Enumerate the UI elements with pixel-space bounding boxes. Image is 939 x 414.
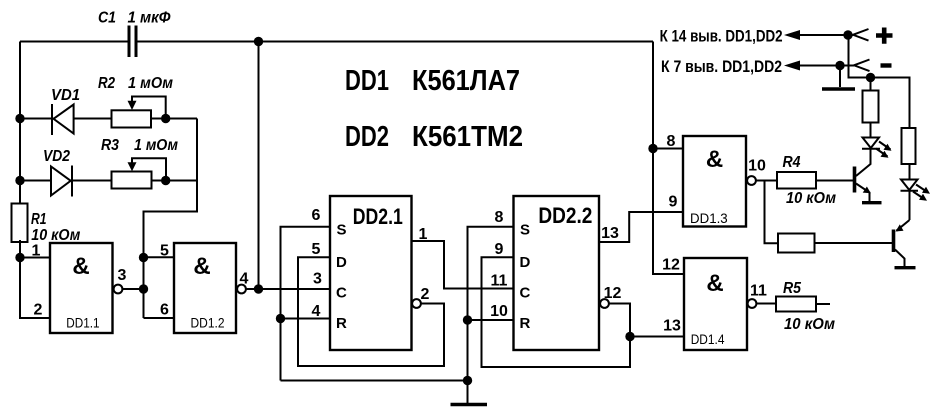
svg-text:DD1.2: DD1.2 [191,315,225,331]
svg-text:5: 5 [160,243,169,260]
svg-text:DD2: DD2 [345,121,389,153]
svg-text:10 кОм: 10 кОм [786,190,836,207]
svg-text:1 мОм: 1 мОм [134,137,178,154]
svg-text:К 7 выв. DD1,DD2: К 7 выв. DD1,DD2 [661,57,782,76]
svg-text:D: D [520,254,531,271]
svg-text:1 мкФ: 1 мкФ [128,10,171,27]
svg-text:&: & [706,270,723,297]
svg-text:5: 5 [312,241,321,258]
svg-text:3: 3 [118,267,127,284]
svg-text:R3: R3 [101,137,119,154]
svg-text:VD2: VD2 [43,148,70,165]
svg-text:&: & [72,253,89,280]
svg-text:10: 10 [490,303,508,320]
svg-text:9: 9 [495,241,504,258]
svg-text:R5: R5 [783,280,802,297]
svg-text:12: 12 [662,257,680,274]
svg-text:&: & [706,146,723,173]
svg-text:DD2.1: DD2.1 [353,204,403,229]
svg-text:R: R [336,315,347,332]
svg-text:10 кОм: 10 кОм [31,227,80,244]
svg-text:DD2.2: DD2.2 [538,203,592,228]
svg-text:11: 11 [750,283,767,300]
svg-text:R: R [520,315,531,332]
svg-text:4: 4 [312,303,321,320]
svg-text:C: C [520,285,531,302]
svg-text:2: 2 [421,286,430,303]
svg-text:C: C [336,285,347,302]
svg-text:9: 9 [669,194,678,211]
svg-text:R1: R1 [31,211,47,228]
svg-text:13: 13 [601,225,619,242]
svg-text:8: 8 [667,133,676,150]
svg-text:DD1.1: DD1.1 [66,315,99,331]
svg-text:10 кОм: 10 кОм [784,316,835,333]
svg-text:S: S [337,222,347,239]
svg-text:C1: C1 [98,10,116,27]
svg-text:DD1: DD1 [345,65,389,97]
svg-text:3: 3 [313,271,322,288]
svg-text:К 14 выв. DD1,DD2: К 14 выв. DD1,DD2 [660,27,783,46]
svg-text:DD1.3: DD1.3 [690,210,728,226]
svg-text:VD1: VD1 [51,87,80,104]
svg-text:12: 12 [604,285,622,302]
svg-text:К561ЛА7: К561ЛА7 [412,65,520,97]
svg-text:13: 13 [663,318,681,335]
svg-text:8: 8 [495,209,504,226]
svg-text:R4: R4 [783,154,801,171]
svg-text:6: 6 [312,207,321,224]
svg-text:10: 10 [748,158,766,175]
svg-text:4: 4 [240,271,249,288]
svg-text:6: 6 [160,302,169,319]
svg-text:1: 1 [419,226,428,243]
svg-text:R2: R2 [98,75,115,92]
svg-text:К561ТМ2: К561ТМ2 [412,121,523,153]
svg-text:&: & [193,253,210,280]
svg-text:11: 11 [491,273,508,290]
svg-text:1: 1 [32,243,41,260]
svg-text:2: 2 [34,302,43,319]
svg-text:1 мОм: 1 мОм [128,75,173,92]
svg-text:D: D [336,254,347,271]
svg-text:DD1.4: DD1.4 [691,331,725,347]
svg-text:S: S [520,222,530,239]
